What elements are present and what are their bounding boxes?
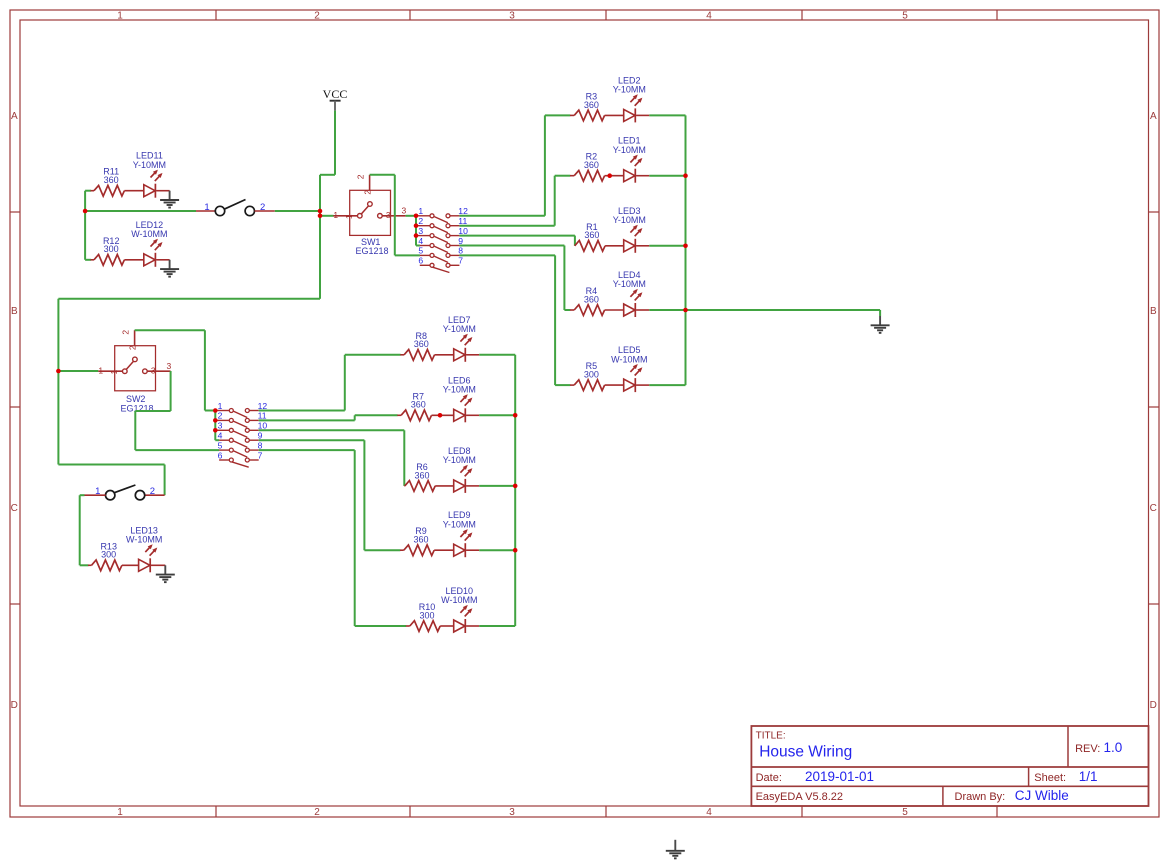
wire main vertical (VCC rail) <box>319 175 321 299</box>
junction SW2 pin1 node <box>56 369 61 374</box>
resistor R10 300 <box>406 602 454 631</box>
junction DIP1 pin3 node <box>414 233 419 238</box>
LED LED6 Y-10MM <box>443 375 479 422</box>
wire SW2 pin3 to DIP2 pin5 <box>135 449 219 451</box>
svg-text:House Wiring: House Wiring <box>759 744 852 761</box>
title block <box>751 726 1148 806</box>
LED LED11 Y-10MM <box>133 151 170 198</box>
wire pin10 dropper (DIP2) <box>403 430 405 486</box>
svg-text:B: B <box>11 306 18 317</box>
svg-text:1: 1 <box>218 401 223 411</box>
wire pin12 riser (DIP2) <box>344 355 346 411</box>
wire SW2 pin2 to DIP2 <box>205 410 215 412</box>
svg-text:REV:: REV: <box>1075 743 1100 755</box>
junction DIP1 pin2 node <box>414 223 419 228</box>
wire pin9 horizontal <box>459 245 564 247</box>
svg-text:D: D <box>11 700 18 711</box>
svg-text:300: 300 <box>101 550 116 560</box>
svg-text:1: 1 <box>109 369 119 374</box>
LED LED7 Y-10MM <box>443 315 479 362</box>
resistor R5 300 <box>570 361 624 390</box>
wire pin10 jog down <box>574 236 576 246</box>
svg-text:VCC: VCC <box>323 87 348 101</box>
LED LED2 Y-10MM <box>613 75 650 122</box>
wire LED7 cathode <box>479 354 515 356</box>
junction cathode node LED6 <box>513 413 518 418</box>
junction cathode node LED1 <box>683 173 688 178</box>
wire R5 feed <box>555 384 570 386</box>
wire cathode bus to ground <box>686 309 881 311</box>
resistor R3 360 <box>570 91 624 120</box>
svg-text:3: 3 <box>218 421 223 431</box>
svg-text:C: C <box>1150 503 1157 514</box>
wire left branch vertical <box>84 191 86 260</box>
svg-text:W-10MM: W-10MM <box>131 229 167 239</box>
svg-text:4: 4 <box>706 807 712 818</box>
switch S1 (SPST) <box>215 200 254 216</box>
wire LED4 cathode <box>649 309 685 311</box>
LED LED13 W-10MM <box>126 525 165 572</box>
svg-text:2: 2 <box>314 807 320 818</box>
svg-text:1: 1 <box>117 10 123 21</box>
wire SW1 pin1 feed <box>320 215 334 217</box>
wire LED6 cathode <box>479 414 515 416</box>
svg-text:360: 360 <box>413 535 428 545</box>
svg-text:1: 1 <box>98 365 103 375</box>
LED LED5 W-10MM <box>611 345 649 392</box>
svg-text:Y-10MM: Y-10MM <box>443 385 476 395</box>
wire R10 feed <box>355 625 407 627</box>
svg-text:6: 6 <box>218 450 223 460</box>
svg-text:TITLE:: TITLE: <box>756 731 786 742</box>
wire LED5 cathode <box>649 384 685 386</box>
svg-text:5: 5 <box>218 440 223 450</box>
svg-text:6: 6 <box>418 256 423 266</box>
wire pin9 dropper (DIP2) <box>363 440 365 550</box>
wire dropper to DIP1 pin5 <box>395 254 420 256</box>
resistor R6 360 <box>404 462 453 491</box>
DIP switch DIP1 (6x SPST) <box>416 214 459 273</box>
svg-text:11: 11 <box>258 411 267 421</box>
DIP switch DIP2 (6x SPST) <box>215 409 258 468</box>
ground under LED13 <box>156 565 175 583</box>
wire S2 right drop <box>164 465 166 496</box>
svg-text:12: 12 <box>458 206 468 216</box>
wire R2 feed <box>555 175 571 177</box>
svg-text:360: 360 <box>584 230 599 240</box>
svg-text:5: 5 <box>418 246 423 256</box>
svg-text:Y-10MM: Y-10MM <box>613 85 646 95</box>
wire R4 feed <box>564 309 570 311</box>
resistor R1 360 <box>575 222 624 251</box>
svg-text:8: 8 <box>258 440 263 450</box>
wire pin9 horizontal (DIP2) <box>259 439 365 441</box>
svg-text:1: 1 <box>418 206 423 216</box>
svg-text:CJ Wible: CJ Wible <box>1015 788 1069 803</box>
resistor R7 360 <box>397 391 453 420</box>
wire pin11 riser <box>554 176 556 226</box>
svg-text:W-10MM: W-10MM <box>611 354 647 364</box>
wire SW2 branch vertical <box>57 299 59 465</box>
wire SW2 pin1 feed <box>58 370 98 372</box>
resistor R11 360 <box>91 167 144 196</box>
resistor R9 360 <box>400 526 454 555</box>
svg-text:Y-10MM: Y-10MM <box>443 455 476 465</box>
wire main row left segment <box>85 210 196 212</box>
LED LED3 Y-10MM <box>613 206 650 253</box>
junction DIP2 pin2 node <box>213 418 218 423</box>
svg-text:2: 2 <box>314 10 320 21</box>
svg-text:360: 360 <box>584 100 599 110</box>
wire VCC vertical <box>334 111 336 175</box>
LED LED8 Y-10MM <box>443 446 479 493</box>
svg-text:12: 12 <box>258 401 268 411</box>
wire pin11 horizontal (DIP2) <box>259 419 355 421</box>
wire LED1 cathode <box>649 175 685 177</box>
svg-text:360: 360 <box>584 294 599 304</box>
junction DIP1 pin1 node <box>414 214 419 219</box>
svg-text:4: 4 <box>418 236 423 246</box>
svg-text:Y-10MM: Y-10MM <box>133 160 166 170</box>
svg-text:3: 3 <box>402 205 407 215</box>
wire DIP1 common vertical <box>415 216 417 246</box>
junction cathode node LED4 <box>683 308 688 313</box>
wire pin10 horizontal (DIP2) <box>259 429 405 431</box>
wire LED2 cathode <box>649 114 685 116</box>
svg-text:D: D <box>1150 700 1157 711</box>
svg-text:360: 360 <box>584 160 599 170</box>
switch S2 (SPST) <box>106 485 145 500</box>
junction node between R2 and LED1 <box>607 173 612 178</box>
S2 right lead <box>145 494 165 496</box>
svg-text:10: 10 <box>258 421 268 431</box>
svg-text:B: B <box>1150 306 1157 317</box>
wire LED8 cathode <box>479 485 515 487</box>
resistor R12 300 <box>91 236 144 265</box>
svg-text:9: 9 <box>458 236 463 246</box>
resistor R8 360 <box>400 331 453 360</box>
wire pin10 horizontal <box>459 235 575 237</box>
wire R7 feed <box>355 414 398 416</box>
wire SW2 pin2 over <box>135 329 205 331</box>
svg-text:3: 3 <box>509 10 515 21</box>
wire SW2 pin2 dropper <box>204 330 206 410</box>
wire S2 left stub <box>80 494 85 496</box>
wire pin9 dropper <box>563 246 565 311</box>
wire pin12 horizontal <box>459 215 545 217</box>
svg-text:1: 1 <box>344 214 354 219</box>
wire pin12 horizontal (DIP2) <box>259 410 345 412</box>
LED LED10 W-10MM <box>441 586 479 633</box>
svg-text:10: 10 <box>458 226 468 236</box>
wire LED9 cathode <box>479 549 515 551</box>
svg-text:A: A <box>11 111 18 122</box>
svg-text:7: 7 <box>258 450 263 460</box>
slide switch SW2 EG1218 <box>98 330 171 414</box>
svg-text:360: 360 <box>414 470 429 480</box>
LED LED12 W-10MM <box>131 220 169 267</box>
wire ground drop <box>879 310 881 316</box>
wire pin8 horizontal <box>459 254 555 256</box>
junction main jog node lower <box>318 214 323 219</box>
wire SW2 pin3 drop 2 <box>134 411 136 450</box>
wire DIP1 pin4 stub <box>416 245 420 247</box>
wire pin8 dropper <box>554 255 556 385</box>
svg-text:3: 3 <box>151 366 156 376</box>
svg-text:360: 360 <box>104 175 119 185</box>
svg-text:3: 3 <box>418 226 423 236</box>
svg-text:9: 9 <box>258 431 263 441</box>
svg-text:4: 4 <box>706 10 712 21</box>
resistor R4 360 <box>570 286 624 315</box>
svg-text:EG1218: EG1218 <box>355 246 388 256</box>
svg-text:5: 5 <box>902 10 908 21</box>
svg-text:EasyEDA V5.8.22: EasyEDA V5.8.22 <box>756 791 843 803</box>
svg-text:300: 300 <box>419 610 434 620</box>
wire R13 drop <box>79 495 81 565</box>
svg-text:300: 300 <box>584 370 599 380</box>
svg-text:2: 2 <box>356 174 366 179</box>
resistor R13 300 <box>88 541 139 570</box>
svg-text:Y-10MM: Y-10MM <box>443 519 476 529</box>
wire S2 top feed <box>58 464 164 466</box>
S2 left lead <box>85 494 106 496</box>
svg-text:Y-10MM: Y-10MM <box>613 215 646 225</box>
junction cathode node LED8 <box>513 484 518 489</box>
wire VCC to main vertical <box>320 174 335 176</box>
wire R13 feed <box>80 564 89 566</box>
svg-text:2: 2 <box>150 486 155 497</box>
svg-text:Y-10MM: Y-10MM <box>613 145 646 155</box>
svg-text:3: 3 <box>386 210 391 220</box>
svg-text:1/1: 1/1 <box>1079 769 1098 784</box>
junction DIP2 pin1 node <box>213 408 218 413</box>
svg-text:SW2: SW2 <box>126 394 146 404</box>
wire pin8 horizontal (DIP2) <box>259 449 355 451</box>
LED LED1 Y-10MM <box>613 136 650 183</box>
svg-text:2: 2 <box>418 216 423 226</box>
wire R9 feed <box>364 549 400 551</box>
slide switch SW1 EG1218 <box>333 174 406 256</box>
wire SW1 pin2 to dropper <box>370 174 395 176</box>
svg-text:A: A <box>1150 111 1157 122</box>
LED LED4 Y-10MM <box>613 270 650 317</box>
wire SW1 pin3 to DIP1 <box>406 215 416 217</box>
wire R8 feed <box>345 354 401 356</box>
wire SW2 pin3 drop <box>170 371 172 411</box>
svg-text:Drawn By:: Drawn By: <box>955 791 1006 803</box>
wire DIP2 pin4 stub <box>215 439 219 441</box>
wire SW2 pin3 jog left <box>135 410 170 412</box>
svg-text:4: 4 <box>218 431 223 441</box>
wire pin8 dropper (DIP2) <box>354 450 356 626</box>
svg-text:Y-10MM: Y-10MM <box>443 324 476 334</box>
svg-text:2019-01-01: 2019-01-01 <box>805 769 874 784</box>
wire main row right segment <box>275 210 320 212</box>
wire pin11 horizontal <box>459 225 554 227</box>
svg-text:2: 2 <box>218 411 223 421</box>
svg-text:C: C <box>11 503 18 514</box>
ground main ground <box>871 316 890 334</box>
svg-text:Date:: Date: <box>756 772 782 784</box>
svg-text:360: 360 <box>414 339 429 349</box>
wire DIP2 common vertical <box>214 411 216 441</box>
junction node between R7 and LED6 <box>438 413 443 418</box>
wire dropper vertical <box>394 175 396 256</box>
svg-text:3: 3 <box>509 807 515 818</box>
wire pin11 jog up <box>354 415 356 420</box>
wire cathode bus vertical <box>685 115 687 385</box>
wire pin12 riser <box>544 115 546 215</box>
svg-text:3: 3 <box>167 361 172 371</box>
svg-text:Sheet:: Sheet: <box>1034 772 1066 784</box>
junction DIP2 pin3 node <box>213 428 218 433</box>
wire R12 feed stub <box>85 259 91 261</box>
wire R3 feed <box>545 114 570 116</box>
svg-text:7: 7 <box>458 256 463 266</box>
junction cathode node LED9 <box>513 548 518 553</box>
svg-text:Y-10MM: Y-10MM <box>613 279 646 289</box>
junction cathode node LED3 <box>683 244 688 249</box>
wire rail to SW2 horizontal <box>58 298 320 300</box>
ground under LED12 <box>160 260 179 278</box>
svg-text:W-10MM: W-10MM <box>126 535 162 545</box>
wire R11 feed stub <box>85 190 91 192</box>
power flag VCC <box>323 87 348 111</box>
wire LED3 cathode <box>649 245 685 247</box>
svg-text:1: 1 <box>117 807 123 818</box>
svg-text:5: 5 <box>902 807 908 818</box>
svg-text:2: 2 <box>363 190 373 195</box>
LED LED9 Y-10MM <box>443 510 479 557</box>
svg-text:1: 1 <box>333 210 338 220</box>
svg-text:2: 2 <box>121 330 131 335</box>
ground below sheet frame <box>666 840 685 860</box>
svg-text:2: 2 <box>128 345 138 350</box>
S1 right lead <box>255 210 275 212</box>
svg-text:11: 11 <box>458 216 467 226</box>
svg-text:W-10MM: W-10MM <box>441 595 477 605</box>
wire cathode bus vertical (group 2) <box>514 355 516 626</box>
junction left branch node <box>83 209 88 214</box>
svg-text:8: 8 <box>458 246 463 256</box>
svg-text:360: 360 <box>411 400 426 410</box>
svg-text:300: 300 <box>104 244 119 254</box>
ground under LED11 <box>160 191 179 209</box>
svg-text:1: 1 <box>204 202 209 213</box>
resistor R2 360 <box>570 152 624 181</box>
S1 left lead <box>196 210 215 212</box>
junction main jog node upper <box>318 209 323 214</box>
svg-text:1.0: 1.0 <box>1104 740 1123 755</box>
wire LED10 cathode <box>479 625 515 627</box>
